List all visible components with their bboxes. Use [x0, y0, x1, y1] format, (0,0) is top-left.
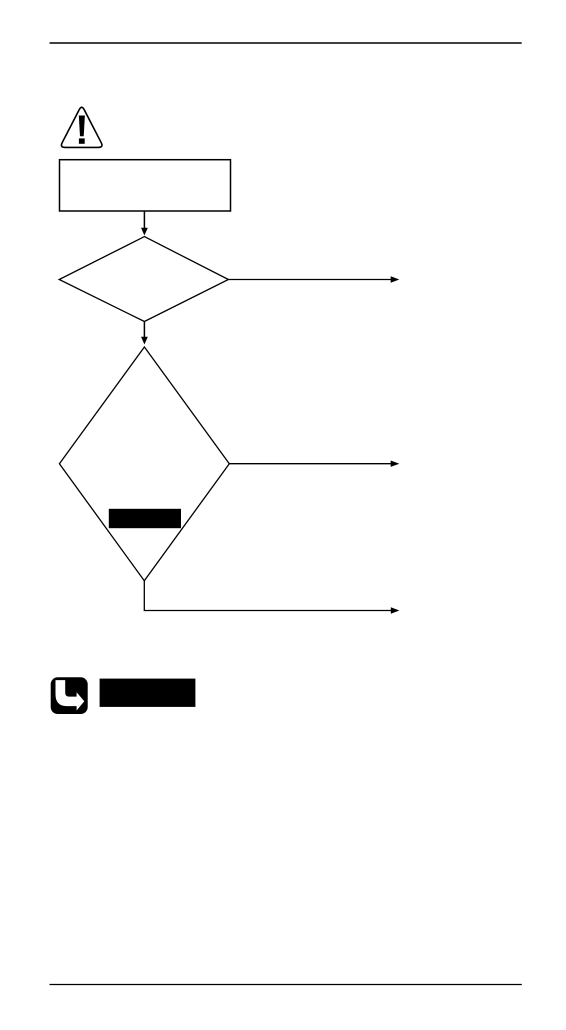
diamond 1 [59, 237, 228, 322]
wire: diamond 1 to diamond 2 [143, 322, 145, 338]
warning triangle icon [61, 107, 102, 147]
arrowhead right 3 [391, 607, 400, 613]
wire: diamond 1 right arrow [228, 279, 391, 281]
note label bar [100, 679, 196, 707]
note icon (black rounded square with white return arrow) [51, 677, 88, 714]
arrowhead right 1 [391, 276, 400, 282]
arrowhead right 2 [391, 461, 400, 467]
arrowhead down 1 [141, 228, 148, 236]
process box [60, 160, 231, 211]
diamond 2 [59, 347, 229, 581]
header rule [50, 42, 522, 44]
black label bar inside diamond 2 [109, 509, 181, 528]
wire: diamond 2 right arrow [229, 463, 391, 465]
arrowhead down 2 [141, 337, 148, 345]
wire: diamond 2 bottom elbow [144, 581, 391, 611]
footer rule [50, 984, 522, 986]
wire: box to diamond 1 [143, 211, 145, 229]
